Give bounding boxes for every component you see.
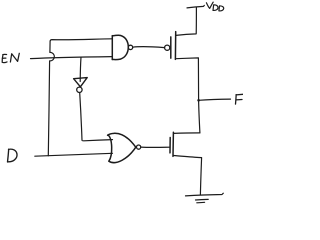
VDD rail bar [187, 5, 204, 8]
NMOS channel bar [172, 132, 174, 156]
wire: NMOS source down to ground [173, 156, 201, 195]
inverter bubble [77, 87, 82, 92]
wire: vertical above hop and top horizontal to NAND [50, 39, 112, 53]
ground symbol [186, 193, 224, 196]
label EN [2, 53, 19, 62]
wire: NOR output to NMOS gate [141, 146, 170, 148]
PMOS gate bar [170, 37, 172, 58]
PMOS channel bar [174, 32, 176, 60]
wire: PMOS source to VDD [176, 8, 197, 36]
inverter (triangle) [74, 78, 88, 87]
label D [8, 149, 18, 162]
wire: D node up to NAND top input (vertical) [48, 61, 49, 156]
NAND gate U1 [112, 35, 128, 59]
wire: EN input [31, 57, 113, 59]
node F junction [197, 99, 200, 102]
wire: D input to NOR bottom input [35, 153, 113, 156]
label F [236, 94, 244, 104]
NOR output bubble [137, 145, 141, 149]
wire hop over EN wire [50, 52, 55, 61]
wire: NAND output to PMOS gate [133, 46, 165, 49]
NAND output bubble [128, 45, 132, 49]
wire: inverter output down and right to NOR top input [80, 93, 113, 141]
wire: output node to F [199, 99, 231, 100]
label VDD [206, 2, 223, 11]
NMOS transistor gate bar [169, 138, 171, 153]
wire: tap from EN down to inverter [79, 57, 82, 81]
wire: NMOS drain to output node [174, 132, 200, 135]
PMOS transistor gate bubble [165, 45, 170, 50]
wire: PMOS drain down to output node and NMOS drain [176, 58, 200, 133]
NOR gate [108, 133, 136, 162]
